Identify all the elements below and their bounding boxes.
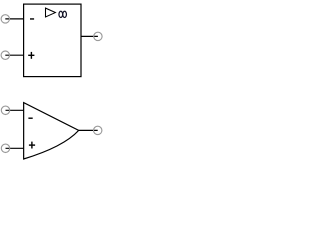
wire U1 non-inverting input [5,54,23,56]
wire U2 non-inverting input [6,147,24,149]
terminal U2 non-inverting input [1,144,9,152]
terminal U1 inverting input [1,15,9,23]
terminal U1 non-inverting input [1,51,9,59]
amplifier triangle glyph inside U1 [46,8,56,17]
label U1 plus pin [28,52,34,59]
op-amp U1 (IEC rectangle symbol) body [24,4,81,77]
op-amp U2 (triangle symbol) body [24,103,79,159]
label U1 minus pin [30,18,34,19]
wire U2 output [79,129,98,131]
wire U2 inverting input [6,109,24,111]
wire U1 output [81,35,98,37]
terminal U2 output [94,126,102,134]
label U2 plus pin [29,142,35,149]
terminal U1 output [94,32,102,40]
label U2 minus pin [28,118,32,119]
wire U1 inverting input [5,18,23,20]
terminal U2 inverting input [1,106,9,114]
infinity gain symbol inside U1 [59,11,66,17]
